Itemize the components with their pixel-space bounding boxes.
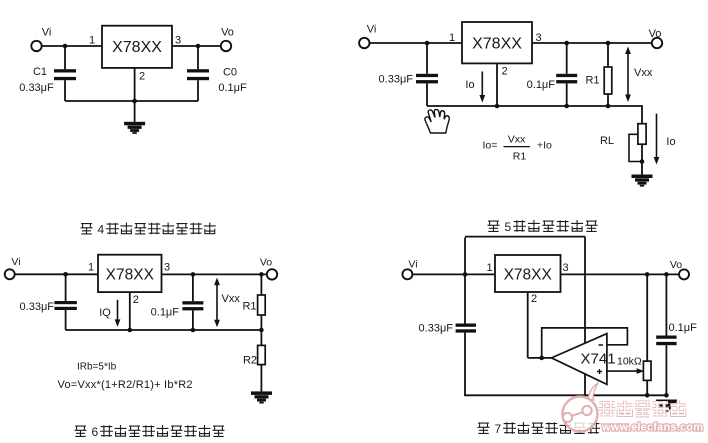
svg-text:2: 2 — [501, 66, 507, 78]
node junction pin2/bus (fig4) — [132, 99, 137, 104]
wire opamp output (fig7) — [528, 357, 552, 359]
svg-text:0.33μF: 0.33μF — [379, 74, 414, 86]
wire Vi to pin1 (fig6) — [15, 273, 98, 275]
wire RL wiper bracket (fig5) — [629, 134, 642, 161]
svg-text:Io: Io — [666, 136, 675, 148]
svg-text:2: 2 — [133, 294, 139, 306]
terminal Vo (fig5) — [652, 38, 662, 48]
wire supply loop top (fig7) — [465, 236, 585, 238]
current arrow Io (fig5) — [481, 72, 483, 97]
ground symbol (fig5) — [632, 175, 653, 179]
node junction R1 top (fig5) — [606, 41, 611, 46]
ground symbol (fig6) — [251, 391, 272, 395]
wire pin2 to ground (fig4) — [134, 68, 136, 122]
svg-text:Vo: Vo — [649, 28, 662, 40]
svg-text:0.33μF: 0.33μF — [20, 301, 55, 313]
svg-text:Vo: Vo — [260, 257, 272, 269]
svg-text:IQ: IQ — [99, 307, 111, 319]
svg-text:C0: C0 — [223, 67, 237, 79]
svg-text:www.elecfans.com: www.elecfans.com — [601, 422, 703, 434]
svg-text:2: 2 — [531, 293, 537, 305]
wire pin2 down (fig5) — [496, 63, 498, 106]
node junction cap bus (fig5) — [564, 104, 569, 109]
svg-text:10kΩ: 10kΩ — [617, 356, 642, 368]
svg-text:IRb=5*Ib: IRb=5*Ib — [77, 362, 117, 373]
wire wiper to plus input (fig7) — [607, 370, 638, 372]
svg-text:1: 1 — [89, 35, 95, 47]
wire pin2 down (fig7) — [527, 292, 529, 358]
svg-text:0.1μF: 0.1μF — [151, 307, 180, 319]
svg-text:1: 1 — [88, 262, 94, 274]
capacitor 0.33uF (fig7) — [456, 324, 476, 327]
svg-text:0.1μF: 0.1μF — [218, 82, 247, 94]
capacitor 0.33uF (fig5) — [426, 43, 428, 74]
capacitor 0.1uF (fig5) — [566, 43, 568, 74]
svg-text:0.1μF: 0.1μF — [669, 322, 698, 334]
wire supply loop right (fig7) — [584, 237, 586, 396]
opamp minus input mark (fig7) — [599, 344, 604, 346]
node junction feedback (fig7) — [539, 356, 544, 361]
svg-text:4: 4 — [98, 223, 105, 237]
node junction R1 R2 (fig6) — [259, 328, 264, 333]
resistor R2 (fig6) — [260, 330, 262, 345]
hand cursor icon (fig5) — [425, 109, 449, 133]
wire pin3 to Vo (fig6) — [162, 273, 267, 275]
wire Vi to pin1 (fig4) — [42, 45, 102, 47]
svg-text:5: 5 — [505, 220, 512, 234]
potentiometer 10k (fig7) — [646, 274, 648, 361]
svg-text:Vxx: Vxx — [634, 67, 653, 79]
svg-text:RL: RL — [600, 135, 614, 147]
node junction pin2 bus (fig5) — [495, 104, 500, 109]
terminal Vi (fig5) — [359, 38, 369, 48]
wire pin3 to Vo (fig7) — [561, 273, 680, 275]
capacitor 0.1uF (fig6) — [192, 274, 194, 301]
wire pin2 down (fig6) — [129, 292, 131, 330]
svg-text:3: 3 — [175, 35, 181, 47]
svg-text:R1: R1 — [585, 75, 599, 87]
svg-text:+Io: +Io — [537, 140, 552, 152]
node junction cap top (fig7) — [664, 272, 669, 277]
svg-text:Vo: Vo — [670, 259, 682, 271]
wire pin3 to Vo (fig5) — [532, 42, 652, 44]
capacitor C0 0.1uF (fig4) — [197, 46, 199, 69]
caption fig4 caption text — [81, 224, 93, 234]
ground symbol (fig7) — [656, 400, 677, 404]
terminal Vo (fig6) — [267, 269, 277, 279]
node junction input cap (fig6) — [63, 272, 68, 277]
node junction C1/input (fig4) — [63, 44, 68, 49]
node junction input left edge (fig7) — [463, 272, 468, 277]
node junction pin2 bus (fig6) — [128, 328, 133, 333]
resistor RL load (fig5) — [638, 124, 646, 145]
node junction cap bus (fig6) — [191, 328, 196, 333]
regulator U4 X78XX (fig7) — [495, 255, 561, 292]
caption fig5 caption text — [488, 221, 500, 231]
terminal Vi (fig6) — [5, 269, 15, 279]
svg-text:X78XX: X78XX — [112, 39, 162, 56]
svg-text:Vo=Vxx*(1+R2/R1)+ Ib*R2: Vo=Vxx*(1+R2/R1)+ Ib*R2 — [58, 379, 193, 391]
svg-text:1: 1 — [449, 32, 455, 44]
voltage arrow Vxx (fig5) — [627, 53, 629, 97]
svg-text:X78XX: X78XX — [106, 267, 155, 284]
node junction R1 top (fig6) — [259, 272, 264, 277]
opamp plus input mark (fig7) — [597, 371, 602, 373]
op regulator U1 X78XX (fig4) — [102, 26, 172, 68]
watermark brand text dianzifashaoyou — [599, 401, 616, 416]
svg-text:Vo: Vo — [221, 27, 234, 39]
svg-text:R1: R1 — [242, 301, 256, 313]
svg-text:Io: Io — [465, 79, 474, 91]
caption fig7 caption text — [478, 423, 490, 433]
wire supply loop left (fig7) — [464, 238, 466, 324]
svg-text:Vi: Vi — [42, 27, 52, 39]
wire ground bus (fig7) — [464, 394, 666, 396]
svg-text:Vi: Vi — [367, 23, 377, 35]
regulator U2 X78XX (fig5) — [462, 22, 532, 63]
caption fig6 caption text — [75, 426, 87, 436]
resistor R1 (fig5) — [607, 43, 609, 67]
terminal Vo (fig7) — [679, 269, 689, 279]
node junction RL bottom (fig5) — [640, 159, 645, 164]
svg-text:Io=: Io= — [483, 140, 498, 152]
voltage arrow Vxx (fig6) — [216, 284, 218, 322]
node junction 0.1uF (fig6) — [191, 272, 196, 277]
svg-text:Vxx: Vxx — [222, 293, 241, 305]
svg-text:X78XX: X78XX — [504, 267, 553, 284]
op-amp U5 X741 (fig7) — [552, 334, 607, 385]
ground symbol (fig4) — [124, 122, 145, 126]
node junction 0.1uF (fig5) — [564, 41, 569, 46]
svg-text:R1: R1 — [513, 151, 527, 163]
node junction C0/output (fig4) — [196, 44, 201, 49]
resistor R1 (fig6) — [260, 274, 262, 295]
regulator U3 X78XX (fig6) — [98, 255, 162, 292]
svg-text:Vi: Vi — [408, 259, 417, 271]
wire feedback loop (fig7) — [542, 328, 628, 358]
terminal Vi (fig7) — [402, 269, 412, 279]
wire ground bus (fig6) — [66, 329, 262, 331]
svg-text:0.33μF: 0.33μF — [419, 323, 454, 335]
svg-text:3: 3 — [164, 262, 170, 274]
current arrow Io output (fig5) — [656, 114, 658, 158]
svg-text:R2: R2 — [243, 354, 257, 366]
svg-text:Vxx: Vxx — [508, 134, 526, 146]
node junction R1 bus (fig5) — [606, 104, 611, 109]
svg-text:0.33μF: 0.33μF — [19, 82, 54, 94]
capacitor 0.1uF (fig7) — [665, 274, 667, 335]
current arrow IQ (fig6) — [117, 300, 119, 321]
svg-text:0.1μF: 0.1μF — [527, 79, 556, 91]
node junction input cap (fig5) — [425, 41, 430, 46]
svg-text:X78XX: X78XX — [472, 36, 522, 53]
svg-text:7: 7 — [495, 422, 502, 436]
svg-text:6: 6 — [92, 425, 99, 439]
svg-text:1: 1 — [486, 262, 492, 274]
capacitor C1 0.33uF (fig4) — [64, 46, 66, 69]
wire bus corner down to RL (fig5) — [641, 105, 643, 124]
wire ground bus (fig4) — [65, 100, 198, 102]
capacitor 0.33uF (fig6) — [65, 274, 67, 301]
terminal Vo (fig4) — [221, 41, 231, 51]
svg-text:Vi: Vi — [11, 256, 20, 268]
wire pin3 to Vo (fig4) — [172, 45, 221, 47]
node junction cap bus end (fig7) — [664, 393, 669, 398]
wire Vi to pin1 (fig7) — [412, 273, 495, 275]
svg-text:C1: C1 — [33, 66, 47, 78]
wire ground bus (fig5) — [427, 105, 642, 107]
svg-text:2: 2 — [139, 71, 145, 83]
svg-text:X741: X741 — [581, 351, 616, 368]
wire Vi to pin1 (fig5) — [370, 42, 463, 44]
node junction pot top (fig7) — [645, 272, 650, 277]
terminal Vi (fig4) — [31, 41, 41, 51]
watermark logo circle elecfans — [563, 383, 599, 432]
svg-text:3: 3 — [562, 262, 568, 274]
node junction pot bus (fig7) — [645, 393, 650, 398]
